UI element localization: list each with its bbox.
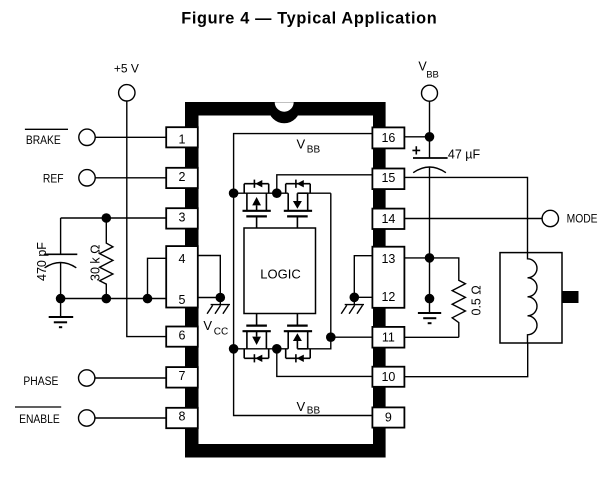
transistor Q4 (bottom-right) — [284, 314, 312, 362]
logic block U1 — [244, 228, 316, 314]
wire pin3 row — [61, 217, 167, 219]
wire pin15 external to motor — [404, 177, 527, 252]
node pin13/sense — [425, 253, 435, 263]
svg-text:7: 7 — [179, 369, 186, 383]
wire pin10 internal — [277, 349, 373, 377]
svg-text:10: 10 — [381, 370, 395, 384]
inductor winding — [528, 253, 538, 343]
resistor R1 30k — [100, 218, 113, 299]
pins 13+12 — [372, 247, 404, 308]
svg-text:REF: REF — [43, 173, 64, 186]
wire pin14 to MODE — [404, 218, 542, 220]
pin 16 — [372, 127, 404, 148]
motor shaft — [562, 291, 579, 303]
wire pin10 to motor — [404, 343, 527, 377]
transistor Q2 (top-right) — [284, 180, 312, 228]
IC package DIP-16 body — [185, 102, 386, 458]
pin 1 — [166, 127, 198, 147]
svg-text:2: 2 — [179, 170, 186, 184]
node VBB top — [229, 188, 239, 198]
ground internal (chassis) — [341, 297, 364, 314]
pin 2 — [166, 168, 198, 188]
wire pin16 external — [404, 136, 429, 138]
node OUT A top — [272, 188, 282, 198]
wire +5V rail — [127, 101, 166, 337]
node internal ground — [350, 293, 360, 303]
ground (signal, right) — [418, 313, 441, 323]
pin 14 — [372, 209, 404, 229]
pin 15 — [372, 169, 404, 190]
svg-text:Figure 4 — Typical Application: Figure 4 — Typical Application — [181, 10, 437, 28]
svg-text:1: 1 — [179, 133, 186, 147]
svg-text:15: 15 — [381, 171, 395, 185]
wire OUT B vertical to pin11 — [331, 193, 373, 337]
svg-text:9: 9 — [385, 411, 392, 425]
transistor Q1 (source-side, top-left) — [243, 180, 271, 228]
resistor R2 0.5 ohm sense — [430, 258, 466, 337]
capacitor C2 47uF — [412, 146, 420, 154]
wire BRAKE to pin1 — [95, 136, 166, 138]
svg-text:5: 5 — [179, 293, 186, 307]
wire pins 4/5 to VCC — [198, 256, 221, 298]
svg-text:47 µF: 47 µF — [448, 148, 481, 162]
svg-text:PHASE: PHASE — [23, 375, 58, 388]
svg-text:3: 3 — [179, 211, 186, 225]
wire pin15 internal — [277, 175, 373, 193]
wire pin5 row — [61, 298, 167, 300]
node ground rail — [425, 294, 435, 304]
wire PHASE to pin7 — [95, 377, 166, 379]
wire bottom node row — [234, 337, 331, 349]
svg-text:12: 12 — [381, 290, 395, 304]
wire pin16 internal VBB — [234, 134, 373, 194]
svg-text:30 k Ω: 30 k Ω — [89, 245, 103, 281]
svg-text:MODE: MODE — [567, 213, 598, 226]
wire pin13 external — [404, 257, 429, 259]
pin 8 — [166, 408, 198, 428]
node OUT A bottom — [272, 344, 282, 354]
svg-text:470 pF: 470 pF — [35, 242, 49, 281]
svg-text:V: V — [203, 318, 212, 333]
package notch bulge — [268, 107, 300, 123]
svg-text:+5 V: +5 V — [114, 62, 139, 76]
svg-text:BB: BB — [307, 406, 321, 417]
svg-text:16: 16 — [381, 131, 395, 145]
terminal BRAKE — [25, 128, 68, 130]
svg-text:14: 14 — [381, 212, 395, 226]
node pin3/R1 — [102, 213, 112, 223]
svg-text:V: V — [297, 399, 306, 414]
node VCC — [216, 293, 226, 303]
node pin4 branch — [143, 294, 153, 304]
svg-text:BB: BB — [426, 70, 439, 81]
node VBB bottom — [229, 344, 239, 354]
svg-text:4: 4 — [179, 252, 186, 266]
svg-text:0.5 Ω: 0.5 Ω — [470, 285, 484, 315]
wire pins 13/12 to internal ground — [354, 256, 372, 298]
motor M1 — [500, 253, 562, 343]
svg-text:CC: CC — [214, 327, 228, 338]
svg-text:13: 13 — [381, 252, 395, 266]
wire cap to ground rail — [429, 167, 431, 313]
node pin16/VBB — [425, 132, 435, 142]
wire top node row — [234, 192, 331, 194]
wire VBB rail to pin9 — [234, 193, 373, 415]
svg-text:LOGIC: LOGIC — [260, 267, 300, 282]
wire resistor to pin11 — [404, 336, 458, 338]
wire pin4 branch — [148, 258, 167, 298]
terminal ENABLE — [15, 406, 61, 408]
ground VCC (chassis) — [207, 298, 230, 314]
wire ENABLE to pin8 — [95, 417, 166, 419]
svg-text:BRAKE: BRAKE — [26, 134, 61, 147]
svg-text:V: V — [297, 136, 306, 151]
svg-text:11: 11 — [382, 330, 395, 344]
pin 7 — [166, 367, 198, 388]
terminal MODE — [542, 210, 558, 226]
package notch — [275, 102, 294, 112]
node pin11 — [326, 332, 336, 342]
wire VBB to pin16 node — [429, 101, 431, 158]
svg-text:8: 8 — [179, 410, 186, 424]
node R1 bottom — [102, 294, 112, 304]
pins 4+5 — [166, 246, 198, 307]
pin 11 — [372, 327, 404, 348]
pin 9 — [372, 407, 404, 427]
capacitor C1 470pF — [44, 218, 77, 299]
pin 10 — [372, 367, 404, 387]
pin 3 — [166, 208, 198, 228]
svg-text:6: 6 — [179, 328, 186, 342]
wire REF to pin2 — [95, 177, 166, 179]
svg-text:ENABLE: ENABLE — [19, 413, 60, 426]
ground (signal, left) — [49, 299, 73, 328]
transistor Q3 (bottom-left) — [243, 314, 271, 362]
pin 6 — [166, 327, 198, 347]
svg-text:BB: BB — [307, 145, 321, 156]
node C1/ground — [56, 294, 66, 304]
